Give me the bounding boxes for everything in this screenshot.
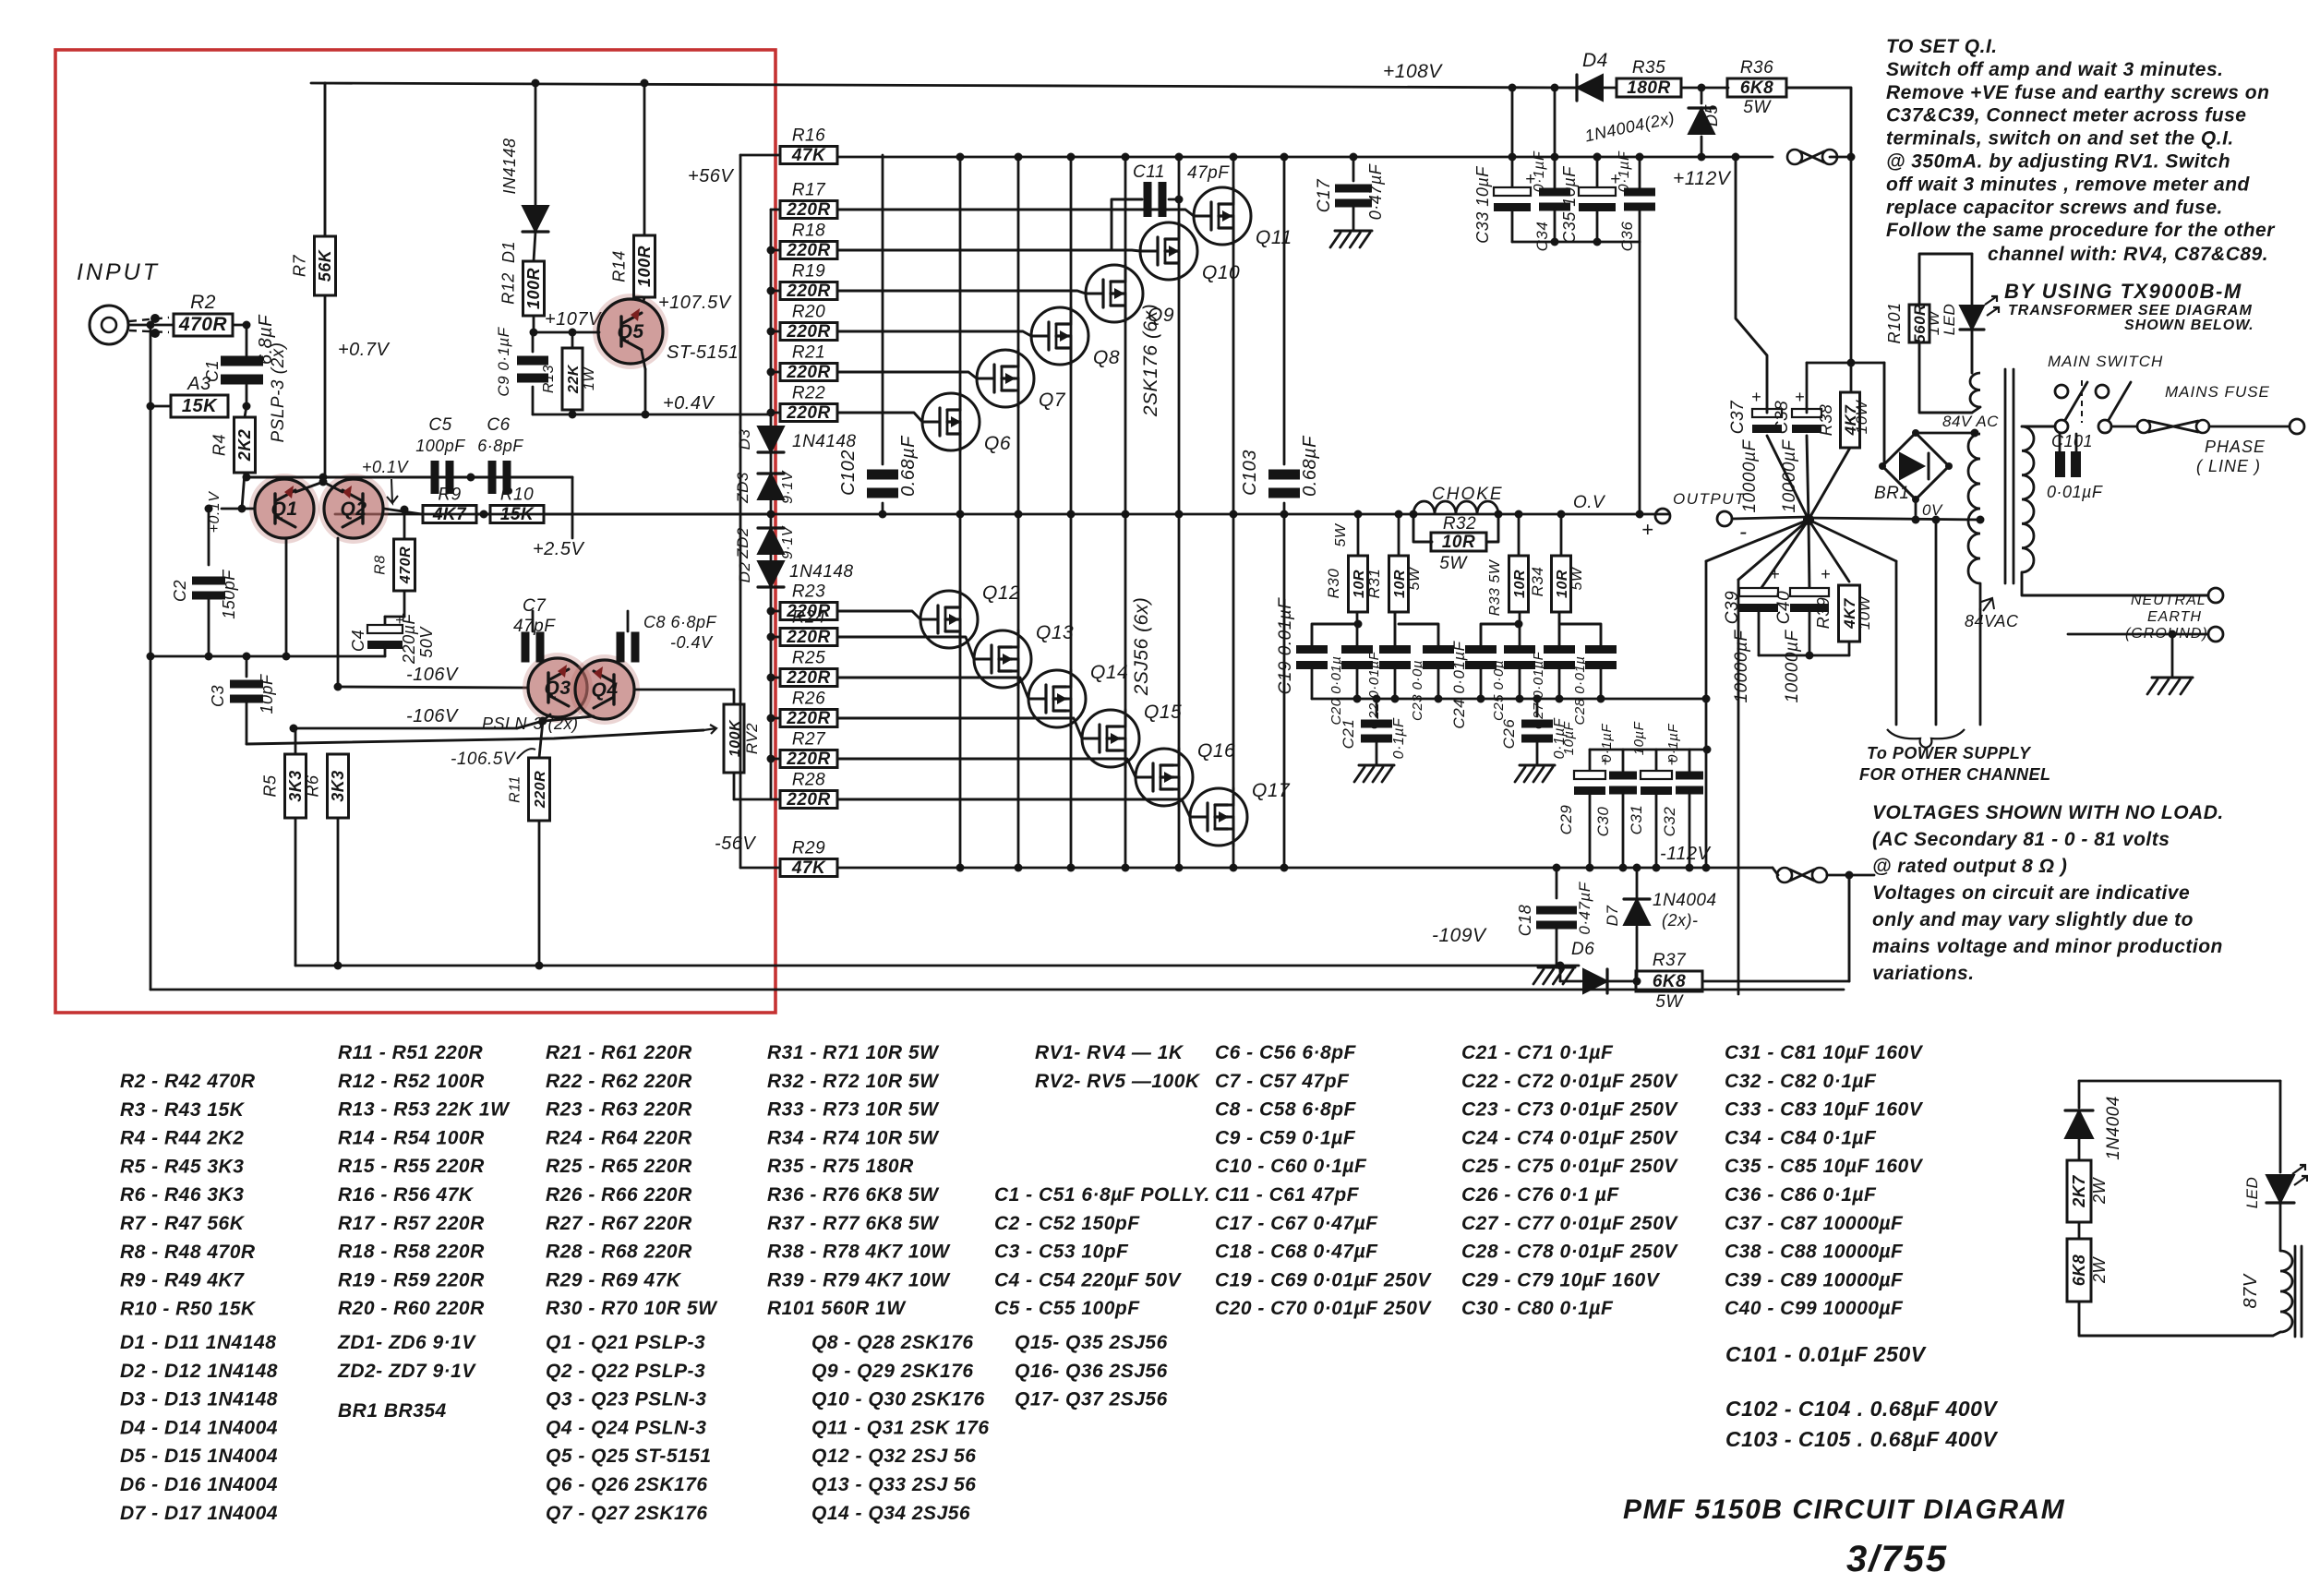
- wire C37 top lead to +112V: [1736, 157, 1767, 413]
- resistor R39 4K7 10W: [1839, 585, 1860, 642]
- wire bottom bus of C33-C36: [1511, 209, 1514, 242]
- svg-text:1N4148: 1N4148: [789, 562, 854, 582]
- svg-text:R13: R13: [541, 365, 557, 393]
- core mini: [2294, 1246, 2297, 1337]
- resistor R33 10R 5W: [1518, 514, 1521, 556]
- svg-text:O.V: O.V: [1573, 493, 1606, 512]
- svg-text:100R: 100R: [524, 268, 543, 309]
- svg-text:ZD1- ZD6 9·1V: ZD1- ZD6 9·1V: [337, 1332, 476, 1353]
- svg-text:BR1 BR354: BR1 BR354: [338, 1400, 447, 1422]
- svg-text:C4 - C54 220µF 50V: C4 - C54 220µF 50V: [994, 1269, 1183, 1290]
- svg-text:C28 0·01µ: C28 0·01µ: [1572, 656, 1588, 726]
- wire LED subcircuit top: [2079, 1080, 2280, 1083]
- wire -106V row upper: [338, 687, 528, 688]
- capacitor C26 0.1uF with ground: [1536, 699, 1539, 716]
- svg-text:C36: C36: [1618, 222, 1636, 252]
- svg-text:Q8 - Q28 2SK176: Q8 - Q28 2SK176: [811, 1332, 974, 1353]
- svg-text:Q9 - Q29 2SK176: Q9 - Q29 2SK176: [811, 1361, 974, 1382]
- svg-text:3/755: 3/755: [1846, 1539, 1948, 1579]
- svg-text:RV2- RV5 —100K: RV2- RV5 —100K: [1035, 1071, 1201, 1092]
- svg-text:R37 - R77 6K8 5W: R37 - R77 6K8 5W: [767, 1213, 940, 1234]
- output minus terminal: [1717, 511, 1732, 526]
- svg-text:R4 - R44 2K2: R4 - R44 2K2: [120, 1128, 244, 1149]
- capacitor C6 6.8pF: [488, 461, 497, 494]
- svg-text:R21: R21: [792, 343, 825, 363]
- svg-text:0·1µF: 0·1µF: [1532, 150, 1547, 192]
- resistor R35 180R: [1617, 78, 1681, 97]
- wire R7 down to Q1/Q2 emitter node: [324, 295, 327, 482]
- svg-text:180R: 180R: [1627, 78, 1670, 98]
- svg-text:D1 - D11 1N4148: D1 - D11 1N4148: [120, 1332, 276, 1353]
- svg-text:5W: 5W: [1569, 566, 1585, 590]
- svg-text:mains voltage and minor pr: mains voltage and minor production: [1872, 936, 2223, 957]
- node junction R35-R36: [1698, 84, 1706, 92]
- resistor R2 470R: [155, 324, 174, 327]
- svg-text:C9 0·1µF: C9 0·1µF: [495, 326, 512, 396]
- diode 1N4004 mini: [2078, 1081, 2081, 1108]
- resistor R31 10R 5W: [1398, 514, 1400, 556]
- svg-text:C38 - C88 10000µF: C38 - C88 10000µF: [1725, 1242, 1904, 1263]
- svg-text:+0.4V: +0.4V: [663, 393, 715, 414]
- svg-text:R39 - R79 4K7 10W: R39 - R79 4K7 10W: [767, 1269, 951, 1290]
- svg-text:R38 - R78 4K7 10W: R38 - R78 4K7 10W: [767, 1242, 951, 1263]
- svg-text:LED: LED: [1941, 304, 1958, 336]
- wire mini bottom: [2079, 1302, 2273, 1336]
- transistor Q5 ST-5151: [593, 294, 668, 369]
- svg-text:R18: R18: [792, 222, 825, 241]
- wire left bus R17-R28 with bias diodes: [770, 210, 773, 413]
- svg-text:5W: 5W: [1655, 992, 1684, 1012]
- wire gate Q17: [837, 799, 1190, 817]
- wire fan down to C39 C40 R39: [1759, 520, 1809, 592]
- svg-text:Q5 - Q25 ST-5151: Q5 - Q25 ST-5151: [546, 1446, 712, 1467]
- svg-text:10R: 10R: [1555, 570, 1570, 598]
- svg-text:+: +: [1751, 388, 1761, 406]
- svg-text:C39: C39: [1723, 591, 1742, 624]
- wire +0.4V row: [533, 414, 771, 416]
- wire left bus R16-R29 (+56V/-56V): [739, 155, 742, 868]
- diode D3 1N4148: [770, 413, 773, 426]
- svg-text:off wait 3 minutes , remove: off wait 3 minutes , remove meter and: [1886, 174, 2251, 195]
- svg-text:(2x)-: (2x)-: [1662, 911, 1699, 930]
- svg-text:NEUTRAL: NEUTRAL: [2131, 593, 2206, 608]
- svg-text:220R: 220R: [786, 403, 830, 423]
- wire top bus of C29-C32: [1590, 749, 1707, 751]
- resistor R22 220R: [780, 404, 837, 422]
- svg-text:6·8pF: 6·8pF: [477, 437, 523, 455]
- wire bridge top to transformer secondary: [1916, 432, 1975, 435]
- resistor R28 220R: [780, 791, 837, 809]
- capacitor C33 10uF: [1494, 187, 1531, 196]
- capacitor C4 220uF 50V: [403, 591, 406, 617]
- svg-text:Q17- Q37 2SJ56: Q17- Q37 2SJ56: [1015, 1389, 1168, 1410]
- svg-text:replace capacitor screws an: replace capacitor screws and fuse.: [1886, 197, 2223, 218]
- svg-text:2W: 2W: [2090, 1255, 2109, 1284]
- svg-text:Q10 - Q30 2SK176: Q10 - Q30 2SK176: [811, 1389, 985, 1410]
- wire gate Q16: [837, 759, 1136, 777]
- svg-text:R34 - R74 10R 5W: R34 - R74 10R 5W: [767, 1127, 940, 1148]
- wire bottom bus C39 C40 R39: [1759, 654, 1849, 657]
- svg-text:C18: C18: [1516, 905, 1534, 937]
- svg-text:C6: C6: [487, 415, 510, 435]
- svg-text:R2 - R42 470R: R2 - R42 470R: [120, 1071, 256, 1092]
- svg-text:C37 - C87 10000µF: C37 - C87 10000µF: [1725, 1213, 1904, 1234]
- transformer secondary winding 84VAC: [1968, 434, 1980, 583]
- svg-text:10W: 10W: [1853, 399, 1870, 434]
- capacitor C37 10000uF: [1752, 409, 1782, 417]
- resistor R24 220R: [780, 629, 837, 646]
- diode D1 1N4148: [535, 83, 537, 206]
- svg-text:channel with: RV4, C87&C89.: channel with: RV4, C87&C89.: [1988, 244, 2268, 265]
- svg-text:R14: R14: [610, 250, 629, 282]
- wire fan up to C37 C38 R38: [1767, 436, 1809, 520]
- svg-text:10R: 10R: [1392, 570, 1408, 598]
- resistor R17 220R: [780, 201, 837, 219]
- svg-text:0.68µF: 0.68µF: [898, 435, 919, 497]
- svg-text:R36 - R76 6K8 5W: R36 - R76 6K8 5W: [767, 1184, 940, 1206]
- svg-text:C32 - C82 0·1µF: C32 - C82 0·1µF: [1725, 1071, 1877, 1092]
- svg-text:C23 - C73 0·01µF 250V: C23 - C73 0·01µF 250V: [1461, 1099, 1678, 1121]
- svg-text:D7 - D17 1N4004: D7 - D17 1N4004: [120, 1503, 278, 1524]
- svg-text:BR1: BR1: [1874, 484, 1909, 503]
- svg-text:C31 - C81 10µF 160V: C31 - C81 10µF 160V: [1725, 1042, 1924, 1063]
- svg-text:VOLTAGES SHOWN WITH NO LOAD: VOLTAGES SHOWN WITH NO LOAD.: [1872, 802, 2224, 823]
- svg-text:MAIN SWITCH: MAIN SWITCH: [2048, 353, 2163, 370]
- capacitor C40 10000uF: [1790, 588, 1829, 596]
- svg-text:R32 - R72 10R 5W: R32 - R72 10R 5W: [767, 1071, 940, 1092]
- capacitor C21 0.1uF with ground: [1376, 699, 1378, 716]
- svg-text:1N4004: 1N4004: [1653, 891, 1717, 910]
- svg-text:SHOWN BELOW.: SHOWN BELOW.: [2124, 318, 2254, 333]
- svg-text:R30: R30: [1325, 569, 1342, 599]
- svg-text:@ 350mA. by adjusting RV1.: @ 350mA. by adjusting RV1. Switch: [1886, 151, 2230, 173]
- wire RV2 bottom: [733, 773, 736, 799]
- svg-text:D1: D1: [499, 241, 518, 263]
- LED mini: [2279, 1081, 2282, 1172]
- svg-text:D6 - D16 1N4004: D6 - D16 1N4004: [120, 1474, 278, 1495]
- svg-text:R31 - R71 10R 5W: R31 - R71 10R 5W: [767, 1042, 940, 1063]
- svg-text:Q17: Q17: [1252, 780, 1291, 801]
- svg-text:@ rated output 8 Ω ): @ rated output 8 Ω ): [1872, 856, 2067, 877]
- wires to other channel with brace: [1895, 561, 1898, 725]
- svg-text:0·47µF: 0·47µF: [1576, 881, 1593, 934]
- svg-text:R14 - R54 100R: R14 - R54 100R: [338, 1127, 485, 1148]
- vertical wire C103 column: [1283, 157, 1286, 464]
- diode D4: [1577, 75, 1603, 101]
- capacitor C9 0.1uF: [532, 332, 535, 352]
- svg-text:0.68µF: 0.68µF: [1300, 435, 1320, 497]
- svg-text:D4: D4: [1582, 50, 1608, 71]
- svg-text:Q4: Q4: [591, 679, 618, 701]
- svg-text:C26: C26: [1500, 719, 1518, 750]
- svg-text:R3 - R43 15K: R3 - R43 15K: [120, 1099, 246, 1121]
- svg-text:R20: R20: [792, 303, 825, 322]
- svg-text:47pF: 47pF: [513, 617, 556, 636]
- winding 87V mini: [2279, 1203, 2282, 1251]
- svg-text:Follow the same procedure: Follow the same procedure for the other: [1886, 220, 2276, 241]
- svg-text:C7: C7: [523, 596, 547, 616]
- svg-text:5W: 5W: [1407, 566, 1423, 590]
- resistor R9 4K7: [423, 506, 476, 523]
- svg-text:0V: 0V: [1922, 501, 1943, 519]
- svg-text:FOR OTHER CHANNEL: FOR OTHER CHANNEL: [1859, 765, 2051, 784]
- wire R36 corner down through bus: [1850, 157, 1853, 392]
- svg-text:10R: 10R: [1442, 533, 1475, 552]
- resistor R16 47K: [780, 147, 837, 164]
- wire +107V node: [533, 316, 535, 332]
- wire gate Q15: [837, 718, 1082, 738]
- wire Q1 collector down: [285, 538, 288, 656]
- svg-text:D7: D7: [1604, 906, 1621, 927]
- svg-text:C17 - C67 0·47µF: C17 - C67 0·47µF: [1215, 1213, 1378, 1234]
- svg-text:LED: LED: [2243, 1177, 2261, 1209]
- svg-text:R25: R25: [792, 649, 825, 668]
- svg-text:C31: C31: [1628, 805, 1645, 835]
- svg-text:R29 - R69 47K: R29 - R69 47K: [546, 1269, 682, 1290]
- capacitor C102 0.68uF: [867, 470, 898, 480]
- svg-text:470R: 470R: [178, 314, 228, 335]
- svg-text:100K: 100K: [727, 719, 743, 757]
- wire snubber bottom bus: [1311, 666, 1314, 699]
- svg-text:C33 - C83 10µF 160V: C33 - C83 10µF 160V: [1725, 1099, 1924, 1121]
- svg-text:R31: R31: [1365, 569, 1383, 599]
- svg-text:Q15- Q35 2SJ56: Q15- Q35 2SJ56: [1015, 1332, 1168, 1353]
- wire neutral: [2022, 572, 2208, 595]
- svg-text:R33 - R73 10R 5W: R33 - R73 10R 5W: [767, 1099, 940, 1121]
- transistor Q1 PSLP-3: [249, 474, 319, 544]
- wire Q2 collector down to R6: [337, 538, 340, 687]
- svg-text:R28 - R68 220R: R28 - R68 220R: [546, 1242, 692, 1263]
- svg-text:-56V: -56V: [715, 834, 756, 854]
- resistor R29 47K: [780, 859, 837, 877]
- svg-text:220R: 220R: [786, 200, 830, 220]
- wire from cap bus down to output rail: [1639, 242, 1641, 514]
- svg-text:2SJ56 (6x): 2SJ56 (6x): [1131, 597, 1152, 697]
- svg-text:-106V: -106V: [406, 665, 459, 685]
- svg-text:220R: 220R: [786, 709, 830, 728]
- wire base row Q1 Q2: [222, 508, 255, 510]
- capacitor C17 0.47uF with ground: [1352, 157, 1355, 181]
- wire input sleeve / left vertical: [150, 325, 152, 656]
- svg-text:9·1V: 9·1V: [780, 470, 796, 504]
- svg-text:A3: A3: [186, 374, 210, 394]
- svg-text:INPUT: INPUT: [77, 259, 160, 285]
- svg-text:220R: 220R: [786, 668, 830, 688]
- resistor R12 100R vertical: [523, 261, 545, 316]
- svg-text:C7 - C57 47pF: C7 - C57 47pF: [1215, 1071, 1350, 1092]
- diode D5 with label 1N4004(2x): [1701, 88, 1703, 103]
- LED indicator: [1971, 254, 1974, 306]
- svg-text:220R: 220R: [786, 628, 830, 647]
- svg-text:C23 0·0µ: C23 0·0µ: [1410, 660, 1425, 721]
- svg-text:R8: R8: [373, 555, 389, 574]
- svg-text:220R: 220R: [786, 322, 830, 342]
- svg-text:+: +: [1795, 388, 1805, 406]
- wire -109V long rail: [295, 965, 1579, 967]
- svg-text:C27 0·01µF: C27 0·01µF: [1531, 651, 1546, 729]
- transistor Q15 2SJ56 MOSFET: [1082, 710, 1139, 767]
- svg-text:R22 - R62 220R: R22 - R62 220R: [546, 1071, 692, 1092]
- svg-text:+2.5V: +2.5V: [533, 539, 584, 559]
- capacitor C34 0.1uF: [1539, 188, 1570, 197]
- svg-text:C24 - C74 0·01µF 250V: C24 - C74 0·01µF 250V: [1461, 1127, 1678, 1148]
- svg-text:TRANSFORMER SEE DIAGRAM: TRANSFORMER SEE DIAGRAM: [2008, 303, 2253, 318]
- svg-text:R33 5W: R33 5W: [1487, 558, 1503, 616]
- svg-text:C5 - C55 100pF: C5 - C55 100pF: [994, 1298, 1140, 1319]
- svg-text:R25 - R65 220R: R25 - R65 220R: [546, 1156, 692, 1177]
- capacitor C1 6.8uF: [246, 325, 248, 355]
- svg-text:10000µF: 10000µF: [1783, 630, 1802, 703]
- svg-text:( LINE ): ( LINE ): [2196, 457, 2261, 475]
- svg-text:Q2: Q2: [340, 498, 367, 520]
- capacitor C29 10uF: [1589, 750, 1592, 772]
- svg-text:R38: R38: [1817, 404, 1835, 437]
- transistor Q17 2SJ56 MOSFET: [1190, 788, 1247, 846]
- svg-text:2K7: 2K7: [2070, 1175, 2088, 1208]
- diode D2 1N4148: [770, 554, 773, 561]
- svg-text:84VAC: 84VAC: [1965, 612, 2019, 630]
- capacitor C39 10000uF: [1739, 588, 1778, 596]
- svg-text:C11: C11: [1133, 162, 1165, 182]
- wire earth with ground symbol: [2068, 633, 2208, 636]
- svg-text:+: +: [1770, 565, 1780, 583]
- wire gate Q9: [837, 291, 1086, 294]
- svg-text:220R: 220R: [786, 750, 830, 769]
- svg-text:R19 - R59 220R: R19 - R59 220R: [338, 1269, 485, 1290]
- svg-text:R34: R34: [1529, 567, 1546, 597]
- svg-text:ZD2- ZD7 9·1V: ZD2- ZD7 9·1V: [337, 1361, 476, 1382]
- svg-text:PHASE: PHASE: [2205, 438, 2266, 456]
- svg-text:R7: R7: [291, 255, 309, 277]
- wire snubber top connections: [1312, 624, 1358, 648]
- svg-text:D5 - D15 1N4004: D5 - D15 1N4004: [120, 1446, 278, 1467]
- wire gate Q6: [837, 413, 922, 422]
- svg-text:C3 - C53 10pF: C3 - C53 10pF: [994, 1242, 1129, 1263]
- wire gate Q13: [837, 637, 974, 659]
- resistor R32 10R 5W bypass: [1413, 514, 1432, 542]
- svg-text:-106V: -106V: [406, 706, 459, 726]
- svg-text:C3: C3: [209, 685, 227, 707]
- svg-text:C34: C34: [1533, 222, 1551, 252]
- svg-text:C35 - C85 10µF 160V: C35 - C85 10µF 160V: [1725, 1156, 1924, 1177]
- transistor Q7 2SK176 MOSFET: [977, 350, 1034, 407]
- svg-text:CHOKE: CHOKE: [1432, 485, 1504, 504]
- svg-text:R23 - R63 220R: R23 - R63 220R: [546, 1099, 692, 1121]
- wire -106V row lower: [294, 727, 517, 730]
- svg-text:1N4004: 1N4004: [2104, 1096, 2123, 1160]
- svg-text:C20 - C70 0·01µF 250V: C20 - C70 0·01µF 250V: [1215, 1298, 1432, 1319]
- svg-text:R36: R36: [1740, 58, 1773, 78]
- wire R37 right up to -112V: [1848, 875, 1851, 981]
- wire top gate-supply rail y=170 continuation: [956, 153, 965, 162]
- svg-text:47K: 47K: [791, 858, 826, 878]
- wire Q3/Q4 emitters join to R11: [543, 714, 550, 721]
- svg-text:15K: 15K: [500, 505, 535, 524]
- resistor R36 6K8 5W: [1727, 78, 1786, 97]
- resistor R18 220R: [780, 242, 837, 259]
- svg-text:Q10: Q10: [1202, 262, 1240, 283]
- wire C38 top lead to bus: [1806, 363, 1809, 413]
- svg-text:150pF: 150pF: [220, 570, 238, 619]
- svg-text:0·47µF: 0·47µF: [1366, 163, 1385, 220]
- svg-text:MAINS FUSE: MAINS FUSE: [2165, 383, 2270, 401]
- svg-text:Q6: Q6: [984, 433, 1011, 454]
- svg-text:6K8: 6K8: [2070, 1254, 2088, 1287]
- svg-text:R27 - R67 220R: R27 - R67 220R: [546, 1213, 692, 1234]
- wire verticals from +108V to caps: [1511, 88, 1514, 190]
- svg-text:PSLP-3 (2x): PSLP-3 (2x): [269, 342, 288, 443]
- svg-text:Q3 - Q23 PSLN-3: Q3 - Q23 PSLN-3: [546, 1389, 706, 1410]
- svg-text:C34 - C84 0·1µF: C34 - C84 0·1µF: [1725, 1127, 1877, 1148]
- zener ZD3 9.1V: [770, 452, 773, 473]
- svg-text:R17 - R57 220R: R17 - R57 220R: [338, 1213, 485, 1234]
- svg-text:C103: C103: [1240, 450, 1260, 496]
- svg-text:-: -: [1739, 520, 1748, 545]
- svg-text:Q5: Q5: [617, 321, 643, 342]
- resistor R27 220R: [780, 750, 837, 768]
- svg-text:R6 - R46 3K3: R6 - R46 3K3: [120, 1184, 244, 1206]
- svg-text:+: +: [1641, 518, 1653, 541]
- svg-text:R32: R32: [1443, 514, 1476, 534]
- capacitor C35 10uF: [1579, 187, 1616, 196]
- svg-text:R20 - R60 220R: R20 - R60 220R: [338, 1298, 485, 1319]
- capacitor C32 0.1uF: [1689, 750, 1691, 772]
- svg-text:C6 - C56 6·8pF: C6 - C56 6·8pF: [1215, 1042, 1357, 1063]
- svg-text:D4 - D14 1N4004: D4 - D14 1N4004: [120, 1417, 278, 1438]
- transformer core: [2004, 369, 2007, 583]
- svg-text:4K7: 4K7: [432, 505, 467, 524]
- capacitor C2 150pF: [208, 509, 210, 565]
- svg-text:50V: 50V: [417, 626, 436, 658]
- svg-text:R26 - R66 220R: R26 - R66 220R: [546, 1184, 692, 1206]
- svg-text:56K: 56K: [316, 248, 334, 282]
- svg-text:RV1- RV4 — 1K: RV1- RV4 — 1K: [1035, 1042, 1184, 1063]
- svg-text:6K8: 6K8: [1740, 78, 1773, 98]
- resistor R14 100R vertical: [634, 235, 655, 297]
- svg-text:C18 - C68 0·47µF: C18 - C68 0·47µF: [1215, 1242, 1378, 1263]
- svg-text:2W: 2W: [2090, 1176, 2109, 1205]
- svg-text:Remove +VE fuse and earthy scr: Remove +VE fuse and earthy screws on: [1886, 82, 2269, 103]
- svg-text:+0.7V: +0.7V: [338, 340, 390, 360]
- wire gate Q12: [837, 611, 920, 619]
- svg-text:R16 - R56 47K: R16 - R56 47K: [338, 1184, 475, 1206]
- svg-text:R16: R16: [792, 126, 825, 146]
- svg-text:BY USING TX9000B-M: BY USING TX9000B-M: [2004, 280, 2242, 303]
- svg-text:D3 - D13 1N4148: D3 - D13 1N4148: [120, 1389, 278, 1410]
- svg-text:Q1 - Q21 PSLP-3: Q1 - Q21 PSLP-3: [546, 1332, 705, 1353]
- svg-text:R19: R19: [792, 262, 825, 282]
- transistor Q3 PSLN-3: [523, 653, 593, 723]
- svg-text:C32: C32: [1661, 807, 1678, 837]
- vertical bus wires for output MOSFET columns: [959, 157, 962, 868]
- input connector: [90, 306, 128, 344]
- svg-text:C22 0·01µF: C22 0·01µF: [1366, 651, 1382, 729]
- svg-text:47pF: 47pF: [1187, 163, 1230, 183]
- svg-text:Q16- Q36 2SJ56: Q16- Q36 2SJ56: [1015, 1361, 1168, 1382]
- capacitor C30 0.1uF: [1622, 750, 1625, 772]
- wire Q5 emitter to +0.4V row: [642, 351, 645, 369]
- svg-text:C101 - 0.01µF 250V: C101 - 0.01µF 250V: [1725, 1342, 1927, 1366]
- svg-text:variations.: variations.: [1872, 963, 1975, 984]
- svg-text:C29: C29: [1557, 805, 1575, 835]
- svg-text:2SK176 (6x): 2SK176 (6x): [1140, 304, 1161, 417]
- wire gate Q7: [837, 372, 977, 378]
- resistor 6K8 2W mini: [2078, 1222, 2081, 1239]
- svg-text:R5 - R45 3K3: R5 - R45 3K3: [120, 1156, 244, 1177]
- svg-text:C28 - C78 0·01µF 250V: C28 - C78 0·01µF 250V: [1461, 1242, 1678, 1263]
- svg-text:22K: 22K: [566, 364, 582, 394]
- svg-text:C20 0·01µ: C20 0·01µ: [1328, 656, 1344, 726]
